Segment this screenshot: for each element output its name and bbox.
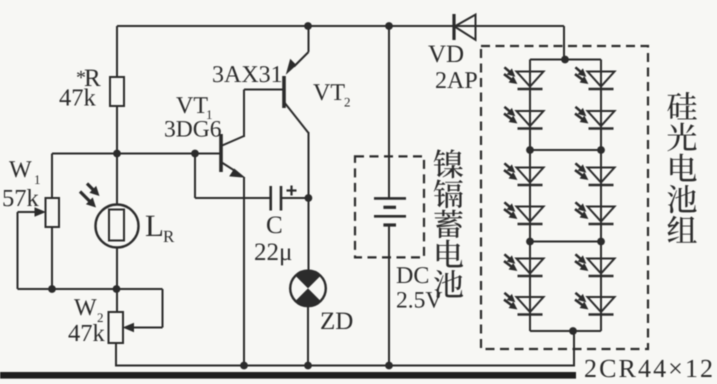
VT1 collector riser	[243, 90, 245, 138]
wire solar junction row 1	[530, 149, 601, 151]
svg-text:R: R	[163, 227, 175, 246]
solar cell D9	[588, 168, 615, 183]
svg-text:VT: VT	[313, 80, 345, 106]
solar cell D12	[588, 297, 615, 312]
potentiometer W2 47k body	[109, 312, 124, 343]
wire W2 wiper drop	[162, 289, 164, 328]
node solar feed bottom	[569, 327, 577, 335]
wire left rail upper (to R)	[116, 26, 118, 78]
wire cap left lead	[195, 197, 270, 199]
solar cell D4	[517, 207, 544, 222]
svg-text:L: L	[145, 208, 164, 243]
solar cell D2	[517, 111, 544, 126]
node junction R/LR/base	[113, 150, 121, 158]
svg-text:2AP: 2AP	[435, 68, 478, 94]
wire VT1 emitter drop	[243, 177, 245, 366]
transistor Q1 VT1 3DG6 base bar	[219, 134, 223, 172]
light arrows at LR	[87, 184, 94, 191]
solar panel dashed enclosure	[481, 46, 648, 349]
svg-text:22μ: 22μ	[254, 239, 292, 266]
solar cell D3	[517, 168, 544, 183]
solar cell D10	[588, 207, 615, 222]
wire W1 wiper riser	[17, 212, 19, 289]
svg-text:W: W	[9, 157, 32, 183]
svg-text:2.5V: 2.5V	[396, 288, 442, 314]
photoresistor LR body	[109, 210, 124, 241]
wire LR top lead	[116, 154, 118, 206]
node VT2 emitter at top rail	[304, 22, 312, 30]
capacitor plus sign	[287, 189, 297, 191]
wire cap takeoff drop	[194, 154, 196, 199]
svg-text:3AX31: 3AX31	[212, 62, 283, 88]
VT1 collector diagonal	[221, 136, 244, 146]
svg-text:47k: 47k	[68, 320, 106, 347]
node junction W1 bottom	[48, 285, 56, 293]
node VT1 emitter at bottom rail	[240, 362, 248, 370]
svg-text:DC: DC	[396, 263, 429, 289]
wire VT2 collector drop	[308, 132, 310, 271]
wire ZD bottom lead	[307, 306, 309, 366]
wire solar feed bottom drop	[573, 331, 575, 366]
svg-text:3DG6: 3DG6	[164, 117, 222, 143]
wire battery top drop	[388, 26, 390, 198]
node junction cap takeoff	[191, 150, 199, 158]
wire cap right lead	[281, 197, 308, 199]
wire bottom rail	[115, 365, 575, 367]
VT2 collector diagonal	[284, 102, 309, 133]
wire W2 bottom to bottom rail	[115, 343, 117, 367]
svg-text:ZD: ZD	[320, 308, 353, 335]
W2 wiper arrow	[132, 327, 163, 329]
potentiometer W1 57k top lead	[51, 154, 53, 199]
svg-text:57k: 57k	[2, 185, 40, 212]
svg-text:VT: VT	[176, 93, 208, 119]
solar cell D11	[588, 259, 615, 274]
wire solar right column	[600, 60, 602, 332]
solar cell D7	[588, 72, 615, 87]
wire solar left column	[529, 60, 531, 332]
node battery top	[385, 22, 393, 30]
solar cell D6	[517, 297, 544, 312]
wire R bottom to base-rail junction	[116, 106, 118, 154]
transistor Q2 VT2 3AX31 base bar	[282, 76, 286, 108]
wire base rail y=153.5	[52, 153, 221, 155]
svg-text:47k: 47k	[59, 85, 97, 112]
node solar feed top	[561, 56, 569, 64]
wire LR bottom lead	[116, 248, 118, 313]
wire solar bottom rail	[530, 330, 601, 332]
potentiometer W1 57k body	[46, 198, 60, 227]
solar cell D5	[517, 259, 544, 274]
VT2 emitter diagonal with arrow (PNP)	[294, 52, 309, 67]
solar cell D8	[588, 111, 615, 126]
capacitor C1 plates	[269, 186, 272, 211]
diode VD 2AP cathode bar	[452, 14, 455, 40]
wire VT2 base	[244, 89, 284, 91]
node junction LR/W2/wire289	[113, 285, 121, 293]
wire mid rail y=289	[18, 288, 163, 290]
node capacitor junction	[305, 194, 313, 202]
lamp ZD filled wedges	[295, 271, 320, 289]
svg-text:2CR44×12: 2CR44×12	[584, 354, 715, 383]
wire W1 bottom lead	[51, 227, 53, 289]
W1 wiper arrow	[18, 211, 39, 213]
label NiCd battery (CJK vertical)	[434, 149, 463, 178]
battery dashed enclosure	[355, 156, 424, 257]
photoresistor LR circle	[96, 205, 139, 248]
wire battery bottom drop	[388, 225, 390, 366]
label silicon solar array (CJK vertical)	[667, 92, 697, 119]
diode VD triangle	[455, 15, 476, 40]
wire top rail	[117, 25, 564, 27]
svg-text:2: 2	[344, 95, 351, 110]
VT1 emitter diagonal with arrow	[221, 162, 237, 172]
node ZD at bottom rail	[304, 362, 312, 370]
wire solar top rail	[530, 59, 601, 61]
scan artifact bottom bar	[0, 372, 576, 379]
wire VT2 emitter riser	[308, 26, 310, 52]
svg-text:W: W	[74, 295, 97, 321]
solar cell D1	[517, 72, 544, 87]
battery B1 plates	[374, 197, 406, 200]
lamp ZD circle	[290, 271, 326, 307]
wire solar junction row 2	[530, 241, 601, 243]
svg-text:VD: VD	[428, 41, 464, 68]
wire solar feed top	[563, 26, 565, 60]
resistor R1 *R 47k	[110, 77, 124, 106]
node battery at bottom rail	[385, 362, 393, 370]
svg-text:C: C	[266, 212, 283, 239]
